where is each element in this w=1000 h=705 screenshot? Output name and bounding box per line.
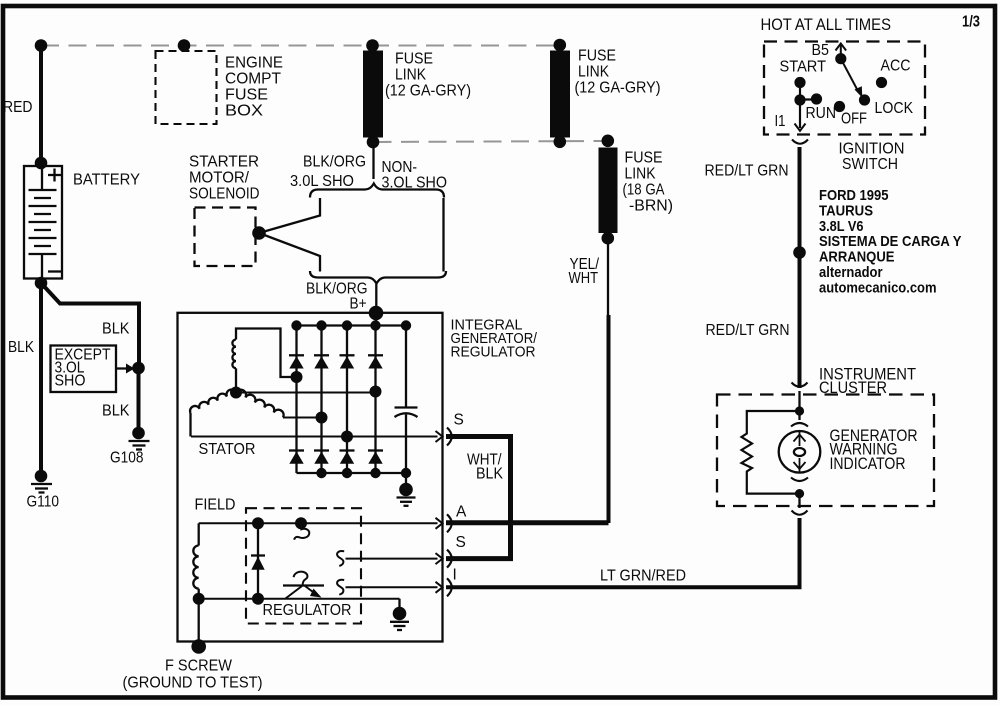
node bottom-col B (316, 468, 326, 478)
fuse link F1 (12 GA-GRY) (363, 51, 383, 138)
ground G110 (35, 470, 48, 483)
svg-text:FUSE: FUSE (578, 48, 616, 65)
svg-text:G108: G108 (110, 450, 144, 467)
ignition switch box (dashed) (764, 42, 925, 135)
node bus-col D (370, 320, 380, 330)
wire: NON-3.0L SHO direct leg (442, 198, 444, 272)
ignition switch B5 node (835, 53, 846, 64)
svg-text:BLK: BLK (476, 465, 504, 482)
node B+ terminal (369, 306, 384, 321)
svg-text:S: S (454, 412, 464, 429)
node: splice on RED/LT GRN (793, 246, 806, 259)
svg-text:HOT AT ALL TIMES: HOT AT ALL TIMES (761, 15, 892, 34)
wire BLK: battery to G110 (39, 283, 43, 476)
wire: B+ lead (375, 284, 377, 313)
svg-text:A: A (456, 504, 467, 521)
callout box EXCEPT 3.OL SHO (51, 346, 117, 393)
svg-text:BLK: BLK (102, 403, 130, 420)
svg-text:(12 GA-GRY): (12 GA-GRY) (575, 80, 661, 97)
diode column B (320, 326, 322, 474)
node: battery positive junction (35, 157, 48, 170)
ground G108 (132, 427, 145, 440)
node: diode bottom junction (252, 593, 264, 605)
svg-text:LINK: LINK (578, 64, 610, 81)
diode A-bottom (289, 449, 304, 451)
ground: regulator (393, 607, 407, 621)
svg-text:MOTOR/: MOTOR/ (189, 170, 250, 187)
svg-text:WHT: WHT (569, 270, 599, 287)
node bottom-cap (401, 468, 411, 478)
battery symbol (24, 166, 62, 279)
stator left coil (190, 390, 236, 413)
diode column C (346, 326, 348, 474)
connector breve A (447, 514, 452, 532)
node: field bottom junction (193, 593, 205, 605)
node: phase3 junction (341, 431, 353, 443)
connector breve I (447, 578, 452, 596)
rectifier bottom bus (297, 472, 407, 474)
node bus-col B (316, 320, 326, 330)
svg-text:B5: B5 (812, 42, 830, 59)
node: battery feed junction (35, 39, 48, 52)
wire: A terminal to YEL/WHT (446, 520, 609, 525)
svg-text:SHO: SHO (55, 373, 86, 390)
regulator transistor (283, 584, 324, 586)
ground: rectifier (405, 473, 407, 487)
svg-text:STARTER: STARTER (189, 154, 259, 171)
svg-text:SWITCH: SWITCH (842, 156, 898, 173)
stator left coil lead (189, 413, 191, 437)
diode B-bottom (314, 449, 329, 451)
diode D-top (368, 354, 383, 356)
svg-text:ACC: ACC (881, 58, 911, 75)
svg-text:1/3: 1/3 (962, 14, 980, 31)
node: stator Y center (230, 387, 242, 399)
capacitor C1 (395, 406, 418, 408)
stator phase1 top wire (236, 329, 297, 378)
connector breve S top (447, 428, 452, 446)
fuse link F3 (18 GA-BRN) (599, 148, 618, 234)
wire BLK/ORG stub from F1 (372, 147, 374, 179)
svg-text:FIELD: FIELD (195, 497, 236, 514)
svg-text:SOLENOID: SOLENOID (189, 186, 260, 203)
brace: split 3.0L SHO / NON-3.0L SHO (310, 184, 444, 198)
wire: fuse-link bottom dashed bus (374, 141, 608, 142)
ignition switch START node (794, 77, 805, 88)
node: fuse box tap junction (178, 39, 191, 52)
capacitor column (405, 326, 407, 408)
engine compartment fuse box (dashed) (156, 51, 217, 124)
svg-text:RED/LT GRN: RED/LT GRN (705, 163, 789, 180)
svg-text:(12 GA-GRY): (12 GA-GRY) (385, 83, 471, 100)
svg-text:NON-: NON- (382, 159, 418, 176)
callout arrow (116, 367, 127, 369)
field winding coil (198, 523, 200, 545)
ignition switch feed arrow (up) (840, 45, 842, 59)
wire: B+ to rectifier bus (375, 313, 377, 326)
svg-text:START: START (780, 59, 827, 76)
diode A-top (289, 354, 304, 356)
contact curl on I line (337, 580, 344, 595)
svg-text:RED/LT GRN: RED/LT GRN (706, 322, 790, 339)
wire: S sense line (191, 436, 438, 438)
arrow: S terminal (top) (436, 431, 443, 442)
wire BLK: junction to G108 (137, 368, 141, 430)
arrow: I terminal (436, 582, 443, 593)
svg-text:F SCREW: F SCREW (165, 658, 232, 675)
generator warning indicator lamp (779, 431, 821, 473)
node: neutral junction (370, 386, 382, 398)
node bus-col A (291, 320, 301, 330)
svg-text:BLK: BLK (8, 339, 35, 356)
contact curl on S line (337, 551, 344, 566)
node: F screw (191, 639, 206, 654)
wire: lamp to cluster edge (798, 494, 800, 508)
svg-text:-BRN): -BRN) (629, 198, 673, 215)
svg-text:INDICATOR: INDICATOR (830, 454, 906, 473)
svg-text:I: I (453, 567, 457, 584)
ignition switch ACC node (876, 77, 887, 88)
wire RED: feed to battery (39, 46, 43, 165)
wire YEL/WHT from F3 (607, 243, 609, 316)
wire: A line (199, 522, 438, 524)
wire: I regulator line (346, 586, 438, 588)
svg-text:(GROUND TO TEST): (GROUND TO TEST) (123, 675, 263, 692)
diode column A (295, 326, 297, 474)
svg-text:3.0L SHO: 3.0L SHO (290, 173, 354, 190)
diode C-bottom (340, 449, 355, 451)
svg-text:BLK: BLK (102, 321, 130, 338)
diode C-top (340, 354, 355, 356)
wire BLK: battery branch to G108 (41, 283, 139, 368)
wire: 3.0L SHO path lower leg (259, 233, 320, 272)
connector breve S lower (447, 550, 452, 568)
svg-text:FUSE: FUSE (225, 87, 268, 104)
svg-text:I1: I1 (775, 113, 786, 130)
ignition switch LOCK node (859, 94, 870, 105)
ignition switch pole wire (799, 83, 801, 129)
svg-text:STATOR: STATOR (199, 441, 256, 458)
svg-text:REGULATOR: REGULATOR (263, 602, 352, 619)
node: lamp top junction (795, 406, 804, 415)
node: switch contact top (295, 517, 307, 529)
svg-text:COMPT: COMPT (225, 71, 282, 88)
svg-text:OFF: OFF (841, 111, 867, 128)
svg-text:S: S (456, 534, 466, 551)
node: battery negative junction (35, 277, 48, 290)
svg-text:automecanico.com: automecanico.com (819, 279, 937, 296)
node: phase2 junction (316, 412, 328, 424)
wire: rail to regulator ground (398, 599, 400, 611)
svg-text:IGNITION: IGNITION (839, 141, 905, 158)
wire RED/LT GRN: ignition to instrument cluster (798, 147, 802, 388)
node bus-col C (342, 320, 352, 330)
node: G108 branch junction (132, 362, 145, 375)
rectifier top bus (297, 324, 407, 326)
diode B-top (314, 354, 329, 356)
node: lamp bottom junction (795, 489, 804, 498)
resistor (cluster shunt) (742, 411, 800, 494)
svg-text:BATTERY: BATTERY (73, 172, 140, 189)
instrument cluster box (dashed) (717, 395, 934, 507)
wire LT GRN/RED: cluster to generator I terminal (446, 518, 800, 587)
connector breve below instrument cluster (792, 511, 808, 515)
diode column D (374, 326, 376, 473)
contact curl under A line (294, 525, 309, 540)
svg-text:BOX: BOX (225, 103, 264, 120)
ignition switch RUN node (811, 93, 822, 104)
svg-text:BLK/ORG: BLK/ORG (303, 154, 366, 171)
fuse link F2 (12 GA-GRY) (550, 51, 570, 138)
svg-text:G110: G110 (27, 494, 60, 511)
wire: Y center to col D (236, 392, 376, 394)
ignition switch rotor arrow to LOCK (841, 59, 858, 91)
connector breve above instrument cluster (792, 383, 808, 387)
svg-text:LINK: LINK (395, 67, 427, 84)
svg-text:B+: B+ (350, 296, 367, 313)
regulator diode (257, 523, 259, 598)
svg-text:ENGINE: ENGINE (225, 55, 283, 72)
svg-text:REGULATOR: REGULATOR (451, 344, 536, 361)
svg-text:(18 GA: (18 GA (623, 182, 666, 199)
stator vertical coil (232, 340, 236, 369)
regulator box (dashed) (246, 508, 361, 623)
arrow: A terminal (436, 518, 443, 529)
wire: main battery feed (dashed, top) (41, 45, 560, 47)
svg-text:LOCK: LOCK (875, 100, 914, 117)
svg-text:LT GRN/RED: LT GRN/RED (600, 567, 686, 584)
stator right coil (236, 390, 284, 418)
wire: regulator emitter rail (199, 598, 400, 600)
svg-text:RUN: RUN (806, 105, 837, 122)
wire WHT/BLK: S to S jumper (446, 437, 511, 559)
ignition output arrow (down) (795, 124, 806, 131)
starter solenoid box (dashed) (195, 208, 256, 267)
connector breve above lamp (791, 423, 808, 427)
generator/regulator box (178, 313, 443, 642)
stator coil lead to Y-center (235, 368, 237, 392)
svg-text:LINK: LINK (625, 166, 657, 183)
wire: S regulator line (346, 558, 438, 560)
arrow: S terminal (lower) (436, 553, 443, 564)
brace: rejoin to B+ (310, 271, 446, 284)
ignition switch OFF node (834, 101, 845, 112)
node bottom-col D (370, 468, 380, 478)
wire: 3.0L SHO path upper leg (259, 198, 320, 233)
connector breve below ignition switch (792, 140, 808, 144)
node bottom-col C (342, 468, 352, 478)
node: phase1 junction (291, 371, 303, 383)
svg-text:FUSE: FUSE (625, 150, 663, 167)
wire: F screw lead (198, 599, 200, 644)
node: solenoid terminal (252, 226, 266, 240)
wire: cluster feed (798, 391, 800, 420)
connector breve below lamp (791, 478, 808, 482)
node bus-cap (401, 320, 411, 330)
svg-text:RED: RED (3, 99, 33, 116)
node: diode top (252, 517, 264, 529)
wire: right coil to col B (283, 417, 322, 419)
diode D-bottom (368, 449, 383, 451)
svg-text:FUSE: FUSE (395, 51, 433, 68)
